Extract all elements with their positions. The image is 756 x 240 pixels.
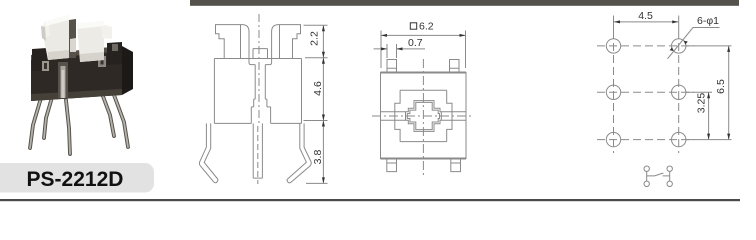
svg-text:0.7: 0.7	[408, 37, 423, 49]
svg-text:6.2: 6.2	[419, 21, 434, 33]
svg-text:4.5: 4.5	[638, 10, 653, 22]
svg-text:4.6: 4.6	[312, 81, 324, 96]
svg-text:6.5: 6.5	[715, 79, 727, 94]
svg-text:3.25: 3.25	[696, 93, 708, 114]
svg-text:2.2: 2.2	[308, 31, 320, 46]
svg-text:6-φ1: 6-φ1	[697, 15, 719, 27]
svg-text:PS-2212D: PS-2212D	[27, 168, 124, 191]
svg-text:3.8: 3.8	[312, 150, 324, 165]
